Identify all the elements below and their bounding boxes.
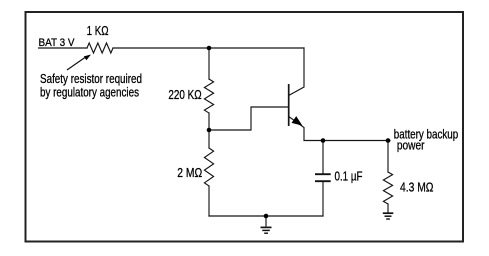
svg-text:4.3 MΩ: 4.3 MΩ bbox=[400, 180, 434, 195]
node junction dot (bottom rail / ground) bbox=[264, 214, 269, 219]
wire 4.3M ground stub bbox=[387, 204, 389, 213]
wire 4.3M top stub bbox=[387, 141, 389, 173]
svg-text:1 KΩ: 1 KΩ bbox=[87, 23, 109, 38]
node junction dot (emitter rail / capacitor) bbox=[321, 138, 326, 143]
resistor R2 220 KOhm (vertical zigzag) bbox=[204, 79, 213, 113]
resistor R3 2 MOhm (vertical zigzag) bbox=[204, 148, 213, 186]
svg-text:220 KΩ: 220 KΩ bbox=[168, 87, 202, 102]
wire capacitor bottom bbox=[322, 182, 324, 217]
transistor Q1 base bar bbox=[288, 84, 290, 126]
wire collector drop bbox=[289, 48, 304, 96]
wire 220K top stub bbox=[208, 48, 210, 79]
svg-text:power: power bbox=[397, 138, 425, 153]
ground (left, bottom rail) bbox=[261, 216, 272, 233]
resistor R1 1 KOhm (horizontal zigzag) bbox=[87, 43, 113, 53]
annotation arrow to R1 bbox=[67, 57, 86, 70]
wire bottom rail bbox=[209, 215, 323, 217]
wire BAT to R1 bbox=[39, 47, 88, 49]
capacitor C1 plates bbox=[315, 174, 331, 181]
wire 220K bottom stub bbox=[208, 113, 210, 130]
node junction dot (220K / 2M / base) bbox=[207, 128, 212, 133]
svg-text:BAT 3 V: BAT 3 V bbox=[39, 37, 76, 49]
wire emitter path bbox=[289, 117, 390, 141]
wire top rail bbox=[113, 47, 304, 49]
wire capacitor top bbox=[322, 141, 324, 175]
wire base path bbox=[209, 107, 289, 130]
resistor R4 4.3 MOhm (vertical zigzag) bbox=[383, 172, 392, 204]
svg-text:0.1 µF: 0.1 µF bbox=[335, 169, 363, 184]
wire 2M bottom stub bbox=[208, 186, 210, 216]
transistor Q1 emitter arrowhead bbox=[292, 117, 301, 125]
node junction dot (top rail / 220K) bbox=[207, 46, 212, 51]
svg-text:2 MΩ: 2 MΩ bbox=[177, 165, 202, 180]
wire 2M top stub bbox=[208, 130, 210, 148]
node junction dot (battery backup power) bbox=[386, 138, 391, 143]
ground (right, under 4.3M) bbox=[383, 213, 394, 219]
svg-text:by regulatory agencies: by regulatory agencies bbox=[40, 85, 139, 100]
